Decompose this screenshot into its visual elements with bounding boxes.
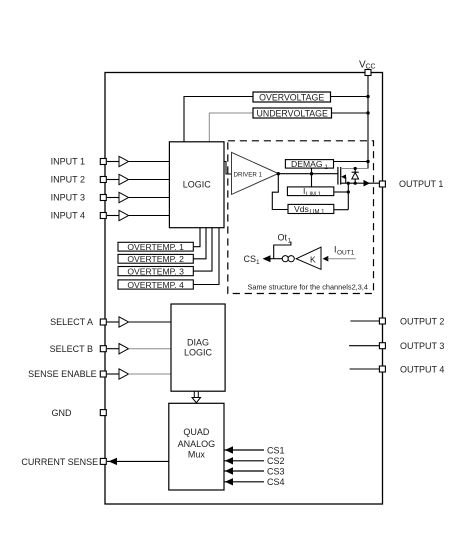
K amplifier triangle <box>296 247 321 269</box>
buffer SELECT A <box>119 317 129 327</box>
wire UNDERVOLTAGE right to Vcc line <box>332 112 369 114</box>
svg-text:OVERTEMP. 2: OVERTEMP. 2 <box>127 254 184 264</box>
current mirror circle 1 <box>282 256 288 262</box>
wire LOGIC bottom to OVERTEMP.2 <box>193 228 206 259</box>
OVERTEMP. 1 box <box>118 242 193 251</box>
wire buffer to DIAG <box>129 321 172 323</box>
svg-text:UNDERVOLTAGE: UNDERVOLTAGE <box>257 108 328 118</box>
wire CS4 into Mux <box>224 481 264 483</box>
svg-text:SELECT B: SELECT B <box>50 344 93 354</box>
svg-text:Ot: Ot <box>278 233 288 243</box>
wire buffer to LOGIC <box>129 215 170 217</box>
OUTPUT 1 pin <box>379 181 385 187</box>
wire source branch down <box>347 183 349 210</box>
wire OUTPUT 3 stub <box>349 345 379 347</box>
wire LOGIC bottom to OVERTEMP.4 <box>193 228 219 285</box>
svg-text:OVERTEMP. 4: OVERTEMP. 4 <box>127 280 184 290</box>
driver U1 triangle <box>232 152 279 194</box>
INPUT 1 pin <box>100 159 106 165</box>
OVERTEMP. 2 box <box>118 254 193 263</box>
wire SELECT A pin to buffer <box>107 321 119 323</box>
OVERVOLTAGE box <box>253 92 331 102</box>
buffer SELECT B <box>119 344 129 354</box>
svg-text:GND: GND <box>52 408 73 418</box>
wire UNDERVOLTAGE left (grey) <box>209 113 253 142</box>
wire I OUT1 (grey) <box>328 258 356 260</box>
wire SELECT B pin to buffer <box>107 348 119 350</box>
svg-text:CS1: CS1 <box>267 445 285 455</box>
wire INPUT 4 pin to buffer <box>107 215 119 217</box>
wire INPUT 3 pin to buffer <box>107 197 119 199</box>
svg-text:1: 1 <box>256 259 260 266</box>
wire driver apex to MOSFET gate <box>278 173 338 175</box>
body diode D1 cathode lead <box>354 169 356 173</box>
svg-text:LOGIC: LOGIC <box>184 348 213 358</box>
svg-text:INPUT 2: INPUT 2 <box>51 175 85 185</box>
arrowhead CS2 <box>225 457 233 464</box>
svg-text:LIM 1: LIM 1 <box>306 192 322 198</box>
current mirror circle 2 <box>288 256 294 262</box>
wire OUTPUT 2 stub <box>350 320 379 322</box>
svg-text:OUT1: OUT1 <box>337 250 355 257</box>
junction dot at driver apex <box>277 172 280 175</box>
buffer SENSE ENABLE <box>119 369 129 379</box>
main IC boundary box <box>105 73 383 505</box>
buffer INPUT 3 <box>119 192 129 202</box>
svg-text:INPUT 3: INPUT 3 <box>51 193 85 203</box>
junction dot DEMAG/gate wire <box>310 172 313 175</box>
Vds LIM 1 box <box>288 204 334 213</box>
svg-text:QUAD: QUAD <box>183 427 210 437</box>
INPUT 2 pin <box>100 177 106 183</box>
svg-text:Vds: Vds <box>294 204 309 214</box>
OUTPUT 3 pin <box>379 343 385 349</box>
wire Vds LIM right <box>334 209 349 211</box>
wire DEMAG bottom to ILIM top <box>311 168 313 187</box>
junction dot <box>366 160 369 163</box>
junction dot diode-source <box>354 182 357 185</box>
wire CS2 into Mux <box>224 460 264 462</box>
junction dot <box>366 95 369 98</box>
body diode D1 anode lead <box>354 179 356 183</box>
MOSFET body arrow <box>341 174 346 179</box>
SELECT A pin <box>100 319 106 325</box>
wire Mux to CURRENT SENSE pin <box>107 460 169 462</box>
arrowhead CS3 <box>225 467 233 474</box>
dashed channel-1 box <box>228 141 374 294</box>
DIAG LOGIC box <box>171 304 225 391</box>
MOSFET Q1 gate bar <box>337 167 339 185</box>
UNDERVOLTAGE box <box>253 108 332 118</box>
svg-text:LIM 1: LIM 1 <box>310 210 326 216</box>
wire DEMAG right to Vcc line <box>334 161 369 163</box>
svg-text:DRIVER 1: DRIVER 1 <box>234 171 263 178</box>
wire LOGIC bottom to OVERTEMP.1 <box>193 228 200 247</box>
svg-text:CURRENT SENSE: CURRENT SENSE <box>21 457 98 467</box>
body diode D1 triangle <box>352 173 359 180</box>
QUAD ANALOG Mux box <box>169 403 224 490</box>
wire SENSE ENABLE pin to buffer <box>107 373 119 375</box>
OVERTEMP. 3 box <box>118 267 193 276</box>
svg-text:SENSE ENABLE: SENSE ENABLE <box>28 369 97 379</box>
arrowhead CS1 <box>225 446 233 453</box>
svg-text:OVERTEMP. 1: OVERTEMP. 1 <box>127 242 184 252</box>
arrowhead into K <box>323 256 329 262</box>
svg-text:CC: CC <box>366 64 376 71</box>
CS1 arrowhead <box>263 255 271 262</box>
wire buffer to LOGIC <box>129 197 170 199</box>
SELECT B pin <box>100 346 106 352</box>
LOGIC box <box>169 142 224 228</box>
svg-text:DEMAG: DEMAG <box>291 159 323 169</box>
wire buffer to LOGIC <box>129 161 170 163</box>
Vcc pin <box>365 70 371 76</box>
svg-text:OUTPUT 3: OUTPUT 3 <box>400 341 444 351</box>
wire INPUT 1 pin to buffer <box>107 161 119 163</box>
svg-text:Same structure for the channel: Same structure for the channels2,3,4 <box>248 282 368 291</box>
svg-text:INPUT 1: INPUT 1 <box>51 157 85 167</box>
bus double-arrow DIAG to Mux <box>192 391 201 403</box>
svg-text:OUTPUT 1: OUTPUT 1 <box>399 179 443 189</box>
arrowhead OUTPUT 1 <box>364 180 371 187</box>
wire OVERVOLTAGE right to Vcc line <box>331 96 369 98</box>
svg-text:ANALOG: ANALOG <box>178 439 216 449</box>
svg-text:OVERVOLTAGE: OVERVOLTAGE <box>259 92 324 102</box>
svg-text:OUTPUT 4: OUTPUT 4 <box>400 364 444 374</box>
wire CS1 into Mux <box>224 449 264 451</box>
wire buffer to LOGIC <box>129 179 170 181</box>
buffer INPUT 4 <box>119 210 129 220</box>
svg-text:K: K <box>310 254 316 264</box>
svg-text:OVERTEMP. 3: OVERTEMP. 3 <box>127 266 184 276</box>
wire driver apex down to Vds LIM 1 left <box>272 174 288 210</box>
buffer INPUT 1 <box>119 156 129 166</box>
wire OUTPUT 4 stub <box>350 368 380 370</box>
OVERTEMP. 4 box <box>118 280 193 289</box>
svg-text:LOGIC: LOGIC <box>183 180 212 190</box>
CURRENT SENSE pin <box>100 458 106 464</box>
svg-text:CS: CS <box>244 254 257 264</box>
wire INPUT 2 pin to buffer <box>107 179 119 181</box>
MOSFET Q1 channel bar <box>340 167 342 185</box>
wire CS3 into Mux <box>224 470 264 472</box>
INPUT 4 pin <box>100 213 106 219</box>
wire OUTPUT 1 (source to pin) <box>341 182 380 184</box>
I LIM 1 box <box>287 187 333 196</box>
GND pin <box>100 410 106 416</box>
arrowhead CURRENT SENSE <box>109 458 118 465</box>
wire I LIM right <box>334 191 349 193</box>
svg-text:OUTPUT 2: OUTPUT 2 <box>400 316 444 326</box>
DEMAG 1 box <box>285 160 333 169</box>
MOSFET drain wire (grey) <box>341 168 368 170</box>
buffer INPUT 2 <box>119 174 129 184</box>
svg-text:SELECT A: SELECT A <box>50 317 93 327</box>
junction dot <box>366 111 369 114</box>
svg-text:CS4: CS4 <box>267 477 285 487</box>
wire CS1 <box>270 258 283 260</box>
junction dot ILIM branch <box>347 190 350 193</box>
svg-text:CS3: CS3 <box>267 466 285 476</box>
svg-text:DIAG: DIAG <box>187 338 209 348</box>
INPUT 3 pin <box>100 195 106 201</box>
wire LOGIC to driver input (jog) <box>224 162 232 175</box>
wire Vcc vertical <box>367 76 369 169</box>
junction dot diode-drain <box>354 167 357 170</box>
svg-text:INPUT 4: INPUT 4 <box>51 211 85 221</box>
body diode D1 cathode bar <box>352 171 359 173</box>
arrowhead CS4 <box>225 478 233 485</box>
wire buffer to DIAG (grey) <box>129 348 172 350</box>
OUTPUT 4 pin <box>379 366 385 372</box>
wire LOGIC bottom to OVERTEMP.3 <box>193 228 212 271</box>
wire LOGIC top to OVERVOLTAGE <box>184 97 253 142</box>
svg-text:CS2: CS2 <box>267 456 285 466</box>
svg-text:Mux: Mux <box>188 450 206 460</box>
wire Ot1 down to CS wire <box>274 242 291 259</box>
junction dot source branch <box>347 182 350 185</box>
wire buffer to DIAG (grey) <box>129 373 172 375</box>
OUTPUT 2 pin <box>379 318 385 324</box>
SENSE ENABLE pin <box>100 371 106 377</box>
